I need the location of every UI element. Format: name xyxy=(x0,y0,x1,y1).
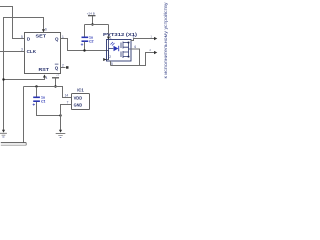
svg-text:IC1: IC1 xyxy=(77,88,84,93)
svg-text:14: 14 xyxy=(65,93,69,97)
svg-text:GND: GND xyxy=(74,102,83,107)
node C1 junction xyxy=(35,85,37,87)
wire output 1 xyxy=(131,39,155,41)
ground symbol center xyxy=(59,130,62,133)
wire output 2 xyxy=(111,49,155,66)
node power junction xyxy=(91,23,93,25)
node RST-gnd junction xyxy=(2,78,4,80)
svg-text:CLK: CLK xyxy=(27,49,37,54)
arrow into PVT312 pin2 xyxy=(103,58,106,61)
svg-text:VDD: VDD xyxy=(74,95,83,100)
svg-text:5: 5 xyxy=(21,35,23,39)
wire C1 bottom to gnd net xyxy=(37,102,61,116)
svg-text:к исполнительному устройству: к исполнительному устройству xyxy=(162,2,169,79)
arrow output 1 xyxy=(154,37,157,40)
arrow into RST pin xyxy=(43,75,46,78)
svg-text:4: 4 xyxy=(46,76,48,80)
svg-text:C2: C2 xyxy=(89,40,94,44)
svg-text:+5: +5 xyxy=(56,73,60,77)
power symbol +V lower xyxy=(52,77,59,79)
wire RST to ground net xyxy=(4,76,45,80)
capacitor C2 xyxy=(82,36,89,38)
svg-text:2: 2 xyxy=(109,55,111,59)
terminal strip bottom-left xyxy=(1,142,26,144)
wire +V rail to IC1 VDD xyxy=(24,87,72,98)
svg-text:7: 7 xyxy=(67,100,69,104)
wire Q output to C2/pin2 net xyxy=(61,39,109,60)
power symbol +V top xyxy=(88,15,96,17)
svg-text:6: 6 xyxy=(45,28,47,32)
mosfet Q-bottom inside X1 xyxy=(121,51,129,58)
svg-text:5: 5 xyxy=(111,62,113,66)
wire Qbar stub xyxy=(61,67,66,69)
arrow into PVT312 pin1 xyxy=(107,37,110,40)
wire IC1 GND xyxy=(61,105,72,116)
LED D1 inside X1 xyxy=(109,40,114,49)
wire gnd stub xyxy=(60,116,62,131)
wire C2 top xyxy=(84,25,86,38)
capacitor C1 xyxy=(33,96,40,98)
flip-flop U1 box xyxy=(25,33,61,74)
mosfet Q-top inside X1 xyxy=(121,42,129,49)
node power rail junction xyxy=(54,85,56,87)
svg-text:C1: C1 xyxy=(41,100,46,104)
wire CLK input from left edge xyxy=(0,51,25,53)
svg-text:RST: RST xyxy=(39,67,50,72)
svg-text:+24 B: +24 B xyxy=(87,12,95,16)
svg-text:SET: SET xyxy=(36,34,47,39)
wire top rail xyxy=(85,24,109,26)
arrow into SET pin xyxy=(42,29,45,32)
wire C2 bottom xyxy=(84,42,86,51)
node gnd junction xyxy=(59,114,61,116)
node C2/Q junction xyxy=(83,49,85,51)
opto-relay X1 box xyxy=(107,40,132,62)
svg-text:Q: Q xyxy=(55,66,59,71)
wire PVT312 pin1 feed xyxy=(108,25,110,38)
IC1 box xyxy=(72,94,90,110)
wire rail drop to terminal xyxy=(23,87,25,143)
svg-text:Q: Q xyxy=(55,36,59,41)
wire D input from left edge xyxy=(0,7,25,39)
internal drain bus xyxy=(129,43,132,57)
wire SET/RST ground net xyxy=(4,18,44,132)
arrow output 2 xyxy=(154,51,157,54)
terminal blob Qbar xyxy=(66,66,69,69)
ground symbol left xyxy=(2,130,5,133)
wire C1 top xyxy=(36,87,38,98)
svg-text:3: 3 xyxy=(21,47,23,51)
